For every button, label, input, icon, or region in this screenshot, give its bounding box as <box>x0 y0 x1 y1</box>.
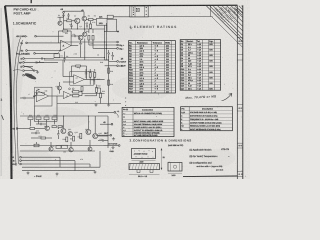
terminal OUT right <box>110 134 112 136</box>
wire drops bottom block <box>46 120 48 127</box>
op-amp U1 <box>61 40 72 51</box>
resistor R12 <box>88 35 90 40</box>
resistor R22 <box>96 88 98 93</box>
wire into U2 from left <box>62 60 64 77</box>
table element-ratings-right outline <box>180 40 220 91</box>
bus line C <box>108 56 110 104</box>
connector CN1 pin column left <box>131 6 133 17</box>
capacitor C8 <box>74 35 76 37</box>
terminal SIG- <box>117 44 119 46</box>
sheet top border <box>5 4 238 7</box>
wire Q4 drop <box>80 45 82 57</box>
transistor Q1 <box>75 18 80 23</box>
terminal SIG2 <box>117 48 119 50</box>
diode D3 <box>112 55 114 57</box>
wire U1 output <box>71 45 78 47</box>
cable tie mark <box>13 69 22 72</box>
connector CN1 polarity glyph <box>136 8 139 11</box>
transistor Q2 <box>82 16 87 21</box>
regulator box U4 <box>96 18 107 25</box>
lower wire row 4 <box>22 166 100 168</box>
table connection column rule <box>132 107 134 136</box>
diagonal revision line 2 <box>213 6 243 36</box>
config drawing base dimension <box>129 173 160 175</box>
top centering tick mark <box>30 0 32 3</box>
transistor Q14 <box>86 130 91 135</box>
config drawing end-view dim <box>168 172 182 174</box>
terminal OUT SPKR <box>118 145 120 147</box>
wire R16 <box>89 69 91 72</box>
wire +B2 drop <box>83 12 85 16</box>
cable bundle curve 1 <box>14 38 21 167</box>
wire Q3 up <box>59 17 61 21</box>
config drawing mounting feet <box>137 170 153 173</box>
wire feedback loop <box>59 30 63 32</box>
revision strip cell 4 <box>237 142 243 144</box>
wire +B rail <box>63 19 65 29</box>
connector box CN1 outline <box>130 6 148 17</box>
diode D1 <box>62 15 64 17</box>
wire +B down <box>63 13 65 19</box>
corner handwriting dashes <box>214 8 217 10</box>
small boxes row y118 <box>28 117 33 120</box>
op-amp U3a box <box>35 87 52 106</box>
capacitor C13 <box>23 97 25 99</box>
transistor Q5 <box>83 32 87 36</box>
table element-ratings-left column rules <box>135 41 137 93</box>
wire R3 left <box>64 20 67 22</box>
resistor R15 <box>76 65 81 67</box>
diagonal revision line 7 <box>235 6 243 14</box>
capacitor C9 <box>63 58 65 60</box>
wire out4 <box>95 47 117 49</box>
revision strip cell 1 <box>237 37 243 39</box>
sheet left border <box>5 6 12 179</box>
junction dots bus <box>104 31 105 32</box>
table element-ratings-right column rules <box>185 40 187 91</box>
resistor R42 <box>56 146 61 149</box>
junction drop x57 <box>56 96 58 122</box>
ground G5 <box>56 173 58 174</box>
capacitor C21 <box>67 14 69 16</box>
input terminal row 8 <box>23 70 25 72</box>
table element-ratings-left outline <box>129 41 176 93</box>
small box row2 <box>44 117 49 120</box>
wire Q2 emitter to rail <box>83 21 85 29</box>
hood box speckle <box>133 150 136 153</box>
wire drop x30 <box>30 120 32 127</box>
junction dots top rail <box>63 29 64 30</box>
diagonal revision line 6 <box>231 6 243 18</box>
wire to OUT+ <box>109 60 117 62</box>
wire U2 out <box>84 78 104 80</box>
ground G4 <box>27 172 29 173</box>
lower wire row 5 <box>22 170 95 172</box>
wire top of bottom stage <box>20 115 108 117</box>
diagonal revision line 3 <box>218 6 244 32</box>
scan smudge blob <box>24 72 37 81</box>
transistor Q11 <box>45 126 49 130</box>
capacitor C11 <box>85 72 87 74</box>
resistor R21 box <box>35 92 44 95</box>
wire out3 <box>95 44 117 46</box>
input terminal row 9 <box>23 74 25 76</box>
table description row rules <box>181 109 233 111</box>
bus line B <box>105 23 107 60</box>
ground G3 <box>108 104 110 105</box>
junction dots bottom <box>63 116 64 117</box>
transistor Q6 <box>58 86 62 90</box>
wire loop below U3a <box>35 106 57 122</box>
ground G7 <box>113 137 115 138</box>
resistor R37 <box>41 137 46 139</box>
relay box K1 <box>54 54 60 58</box>
wire U2 inputs <box>63 76 74 78</box>
wire R13 <box>92 29 94 33</box>
resistor R35 <box>73 136 75 141</box>
ground G2 <box>95 104 97 105</box>
resistor R19 <box>108 80 110 85</box>
wire Q5 collector up <box>84 29 86 32</box>
sheet bottom border (right part) <box>183 175 237 178</box>
wires U3b to resistors <box>72 94 73 96</box>
table description outline <box>181 107 233 131</box>
config drawing end-view box <box>168 163 182 172</box>
paper background <box>0 0 250 179</box>
dotted leader to table <box>124 97 127 100</box>
terminal circles above U3b <box>69 88 71 90</box>
wires power stage verticals <box>62 116 64 129</box>
table element-ratings-right header rule <box>180 42 220 44</box>
scan dust specks <box>112 99 115 102</box>
resistor R17 <box>94 72 96 77</box>
table description column rule <box>188 107 190 131</box>
resistor R31 <box>30 128 35 130</box>
left margin tick <box>2 115 4 120</box>
resistor R26 <box>81 87 83 92</box>
bus line A <box>104 25 106 60</box>
second stage rail 1 <box>20 145 104 147</box>
terminal +B right <box>111 123 113 125</box>
wire out1 <box>105 31 118 33</box>
wire mid h1 <box>54 57 105 59</box>
capacitor C31 <box>40 123 42 125</box>
resistor R16 <box>89 72 91 77</box>
config drawing height dimension line <box>161 149 163 170</box>
revision strip cell 5 <box>237 171 243 173</box>
config drawing side-view hatch <box>129 164 130 170</box>
scan blotches <box>8 149 52 167</box>
connector CN1 pin column right <box>144 6 146 17</box>
right revision strip inner border <box>236 5 238 179</box>
junction dot out1 <box>117 31 119 33</box>
wire U3 out <box>82 93 105 95</box>
diode D2 <box>108 53 110 55</box>
resistor R41 <box>34 144 39 147</box>
revision strip cell 2 <box>237 54 243 56</box>
resistor R13 <box>92 35 94 40</box>
box U5 <box>62 145 68 148</box>
feedback box U2 <box>70 72 94 86</box>
resistor R36 <box>80 133 82 138</box>
table element-ratings-right rows <box>180 45 220 47</box>
op-amp U2 <box>74 75 85 84</box>
capacitor C32 <box>35 132 37 134</box>
resistor R8 <box>90 24 92 28</box>
wire Q1 base left <box>72 20 75 22</box>
pot arrow row4 <box>58 50 61 54</box>
diagonal fold line long <box>207 6 244 42</box>
wire Q1 emitter to rail <box>76 23 78 29</box>
transistor Q18 <box>88 147 92 151</box>
wire mid h2 <box>44 59 109 61</box>
wire bus C bottom to rail <box>105 59 109 61</box>
wire lower rail <box>57 103 121 105</box>
diagonal line below strip <box>212 17 243 48</box>
table connection row rules <box>122 110 174 112</box>
scan streak left edge <box>1 8 2 176</box>
op-amp U3b <box>63 91 71 98</box>
resistor R4 <box>88 19 93 21</box>
second stage rail 2 <box>20 150 95 152</box>
wire U2 fb <box>72 65 76 67</box>
top strip divider <box>210 5 212 16</box>
config drawing hood dimension 24.5 <box>132 159 156 161</box>
resistor R32 <box>52 126 56 128</box>
wire branch x116.7 <box>116 19 118 31</box>
wire R12 <box>88 29 90 33</box>
terminal OUT- <box>117 65 119 67</box>
diagonal revision line 8 <box>239 6 243 10</box>
row5 capacitor C5 <box>41 57 43 59</box>
wire U6 to connector <box>113 16 130 18</box>
resistor R18 <box>108 68 110 73</box>
table connection outline <box>122 107 174 136</box>
scan noise overlay <box>0 0 250 179</box>
resistor R3 <box>67 20 72 22</box>
wire out2 <box>60 41 117 43</box>
wires cluster verticals <box>50 142 52 147</box>
row6 capacitor C6 <box>35 61 37 63</box>
wire Q4 emitter down <box>80 40 82 42</box>
ground G1 <box>80 42 82 43</box>
transistor Q4 <box>78 35 83 40</box>
table element-ratings-left header rule <box>129 43 176 45</box>
interface box U6 <box>107 15 113 18</box>
terminal +B <box>63 12 65 14</box>
wire to OUT- <box>105 65 117 67</box>
transistor Q15 <box>93 134 98 139</box>
resistor R24 <box>73 91 79 93</box>
resistor R11 feedback <box>63 30 68 32</box>
vertical links lower <box>59 157 61 167</box>
wire +B link top <box>64 10 85 12</box>
table element-ratings-left rows <box>129 46 176 48</box>
terminal SIG+ <box>117 41 119 43</box>
revision strip cell 3 <box>237 104 243 106</box>
top strip lower rule <box>130 16 213 18</box>
resistor R33 <box>58 126 62 128</box>
ground G8 with label <box>112 146 114 147</box>
terminal OUT+ <box>117 61 119 63</box>
row7 wire curve down <box>24 66 33 71</box>
terminal T+ bottom right <box>114 111 116 113</box>
capacitor C33 <box>102 139 104 141</box>
cable bundle curve 2 <box>17 40 23 164</box>
wire R17 <box>94 69 96 72</box>
diagonal revision line 1 <box>210 6 244 40</box>
capacitor C3 <box>86 25 88 27</box>
resistor R34 <box>66 137 68 142</box>
corner writing extra strokes <box>234 9 243 18</box>
capacitor C22 <box>70 24 72 26</box>
transistor Q17 <box>69 148 73 152</box>
diagonal revision line 5 <box>227 6 244 23</box>
diagonal revision line 4 <box>222 6 243 27</box>
ground G6 <box>94 171 96 172</box>
wire R22 R23 link <box>97 87 101 89</box>
diode D11 <box>57 134 59 136</box>
resistor R23 <box>100 93 102 98</box>
ground row8 <box>37 71 39 72</box>
wire U4 down <box>106 25 108 31</box>
config drawing side-view body <box>129 164 160 170</box>
op-amp U3a <box>36 90 48 102</box>
wire collector rail <box>86 19 89 21</box>
resistor R25 <box>73 95 79 97</box>
transistor Q3 <box>58 21 62 25</box>
transistor Q16 <box>49 147 53 151</box>
wire Q5 drop <box>84 39 86 60</box>
transistor Q12 <box>61 129 66 134</box>
right revision strip outer border <box>242 5 244 179</box>
wire U3a out to U3b <box>49 95 64 97</box>
wire R31 right <box>35 128 45 130</box>
transistor Q13 <box>68 132 72 136</box>
diagonal revision line 9 <box>242 6 244 8</box>
connector CN1 pins (dots) <box>133 7 134 8</box>
config drawing jacket hood box <box>132 149 156 159</box>
wire out node <box>98 135 108 137</box>
